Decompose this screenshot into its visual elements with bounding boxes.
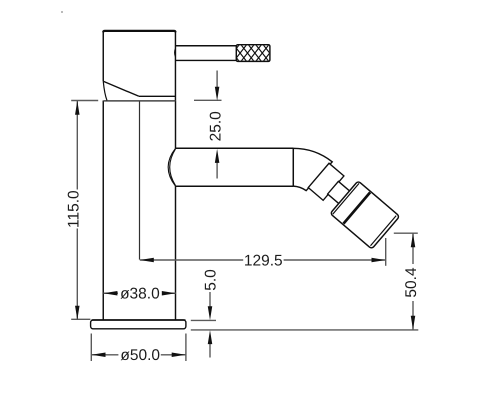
mixer head (cartridge housing) (103, 31, 175, 101)
knurled knob outline (236, 45, 270, 62)
sprayer back chamfer line (333, 183, 359, 214)
spout bend elbow (293, 148, 332, 190)
dimension 25.0 (spout drop) (194, 71, 225, 179)
sprayer assembly (rotated frame, origin at outlet centre) (305, 159, 400, 249)
bend seam line (292, 148, 294, 186)
lever handle shaft (175, 46, 237, 61)
svg-text:ø50.0: ø50.0 (120, 347, 160, 364)
connector neck (328, 181, 350, 203)
body top rim line (104, 100, 176, 102)
svg-text:5.0: 5.0 (203, 269, 220, 291)
faucet body cylinder outline (103, 101, 175, 321)
dimension 129.5 (reach) (140, 238, 386, 269)
dimension diameter 50.0 (base plate) (91, 334, 186, 365)
svg-text:50.4: 50.4 (403, 267, 420, 298)
elbow end collar (308, 163, 344, 200)
knob knurling crosshatch (225, 43, 277, 63)
spout tube horizontal section (176, 148, 294, 186)
svg-text:115.0: 115.0 (65, 190, 82, 228)
dimension diameter 38.0 (body) (103, 285, 175, 302)
dimension 50.4 (outlet height) (394, 233, 420, 330)
dimension 5.0 (base plate thickness) (191, 269, 418, 358)
svg-text:129.5: 129.5 (244, 252, 283, 269)
base plate (91, 320, 186, 329)
sprayer groove ring (343, 192, 370, 223)
stray dot artefact (61, 11, 63, 13)
dimension 115.0 (overall height) (65, 101, 98, 320)
body centerline (139, 102, 141, 260)
fillet arcs at spout-body junction (168, 148, 175, 186)
svg-text:25.0: 25.0 (208, 111, 225, 142)
sprayer head cylinder (330, 181, 400, 249)
sprayer outlet chamfer line (370, 216, 396, 246)
svg-text:ø38.0: ø38.0 (120, 285, 160, 302)
